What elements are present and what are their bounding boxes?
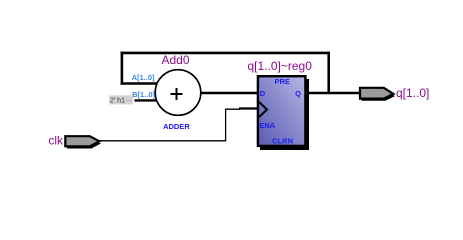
input pin label clk bbox=[48, 134, 64, 148]
svg-text:CLRN: CLRN bbox=[272, 136, 293, 145]
adder pin label B[1..0] bbox=[132, 90, 155, 99]
adder Add0 bbox=[155, 70, 201, 116]
svg-text:Add0: Add0 bbox=[161, 53, 189, 67]
dff clock triangle bbox=[259, 102, 267, 117]
constant 2'h1 bbox=[109, 95, 133, 104]
wire Q output bbox=[304, 92, 361, 94]
svg-text:clk: clk bbox=[48, 134, 64, 148]
svg-text:PRE: PRE bbox=[274, 77, 289, 86]
wire feedback left vertical bbox=[121, 52, 124, 85]
svg-text:ENA: ENA bbox=[259, 121, 275, 130]
dff pin label Q bbox=[295, 89, 301, 98]
wire adder output to D bbox=[200, 92, 260, 94]
adder name label Add0 bbox=[161, 53, 189, 67]
adder type label ADDER bbox=[163, 122, 190, 131]
svg-text:A[1..0]: A[1..0] bbox=[132, 73, 155, 82]
dff q[1..0]~reg0 bbox=[258, 76, 309, 150]
svg-text:ADDER: ADDER bbox=[163, 122, 190, 131]
input pin clk bbox=[65, 136, 101, 148]
svg-text:q[1..0]: q[1..0] bbox=[396, 86, 429, 100]
svg-text:2' h1 --: 2' h1 -- bbox=[110, 97, 132, 104]
dff pin label ENA bbox=[259, 121, 275, 130]
dff name label q[1..0]~reg0 bbox=[248, 59, 313, 73]
svg-text:Q: Q bbox=[295, 89, 301, 98]
dff pin label D bbox=[260, 89, 266, 98]
svg-text:B[1..0]: B[1..0] bbox=[132, 90, 155, 99]
svg-text:q[1..0]~reg0: q[1..0]~reg0 bbox=[248, 59, 313, 73]
adder pin label A[1..0] bbox=[132, 73, 155, 82]
output pin label q[1..0] bbox=[396, 86, 429, 100]
output pin q[1..0] bbox=[360, 88, 395, 101]
dff pin label PRE bbox=[274, 77, 289, 86]
wire clk net bbox=[100, 109, 259, 141]
wire feedback right vertical bbox=[327, 52, 330, 94]
wire feedback top horizontal bbox=[121, 52, 330, 55]
wire adder input B bbox=[135, 99, 158, 101]
svg-text:D: D bbox=[260, 89, 266, 98]
wire adder input A bbox=[121, 82, 157, 85]
dff pin label CLRN bbox=[272, 136, 293, 145]
